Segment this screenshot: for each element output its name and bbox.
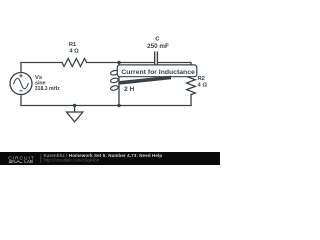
- resistor R2: [187, 75, 196, 95]
- capacitor C plates: [155, 52, 158, 72]
- inductor L1 loops: [110, 70, 119, 91]
- svg-text:4 Ω: 4 Ω: [198, 83, 208, 89]
- junction node top of inductor: [117, 61, 120, 64]
- svg-text:250 mF: 250 mF: [147, 43, 169, 50]
- wire source bottom to bottom rail: [20, 95, 22, 106]
- sine wave inside source: [14, 78, 28, 89]
- CircuitLab logo: [8, 155, 34, 164]
- plus sign of source: [19, 74, 22, 91]
- ground triangle: [67, 112, 83, 122]
- svg-text:Current for Inductance: Current for Inductance: [121, 69, 195, 76]
- svg-text:R1: R1: [69, 42, 77, 48]
- svg-text:http://circuitlab.com/c6qk48e: http://circuitlab.com/c6qk48e: [44, 158, 100, 163]
- junction node bottom of inductor: [117, 104, 120, 107]
- junction node ground: [73, 104, 76, 107]
- wire R2 to bottom rail: [190, 95, 192, 106]
- svg-text:4 Ω: 4 Ω: [69, 49, 79, 55]
- voltage source Vs circle: [10, 73, 32, 95]
- wire top-left vertical: [20, 63, 22, 73]
- wire top horizontal left of R1: [21, 62, 62, 64]
- svg-text:LAB: LAB: [24, 159, 33, 164]
- svg-text:318.3 mHz: 318.3 mHz: [35, 86, 60, 92]
- minus sign of source: [19, 90, 22, 92]
- footer divider: [40, 154, 42, 163]
- wire R1 to capacitor: [87, 62, 155, 64]
- ground stub: [74, 106, 76, 113]
- svg-text:2 H: 2 H: [124, 86, 134, 93]
- bottom wire: [21, 105, 191, 107]
- annotation arrow wedge: [120, 76, 172, 85]
- resistor R1: [62, 59, 87, 67]
- footer watermark bar: [0, 152, 220, 165]
- annotation box Current for Inductance: [117, 65, 197, 77]
- wire capacitor to right corner, down to box: [158, 63, 191, 67]
- svg-text:R2: R2: [198, 76, 205, 82]
- wire inductor branch vertical: [118, 63, 120, 106]
